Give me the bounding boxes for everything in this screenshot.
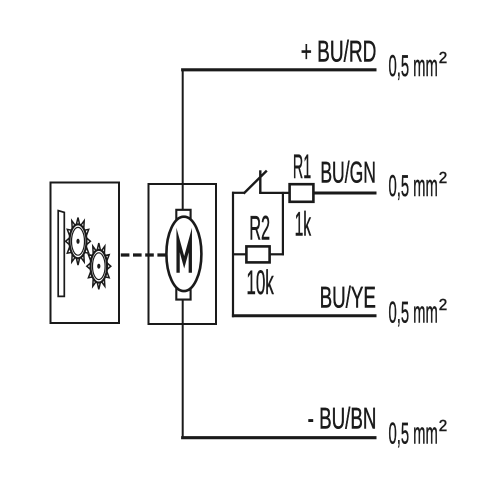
wire: R2 left lead [232,253,247,255]
svg-text:- BU/BN: - BU/BN [308,403,377,436]
cable BU/YE [232,314,377,317]
label 0,5 mm2 row1 [389,50,438,83]
cable + BU/RD [181,68,376,71]
cable - BU/BN [181,436,376,439]
label R1 [293,148,311,186]
label 0,5 mm2 row2 [389,170,438,203]
svg-text:BU/YE: BU/YE [320,281,376,314]
gear rack bar [58,211,64,297]
label 0,5 mm2 row3 [389,297,438,330]
label R2 [249,210,270,248]
resistor R2 box [246,246,269,262]
cable BU/GN [313,192,376,195]
svg-text:R1: R1 [293,148,311,186]
wire: R2 right lead [269,253,284,255]
svg-text:2: 2 [439,170,448,187]
motor M1 body [166,217,201,291]
svg-text:10k: 10k [246,264,274,302]
gear G2 [87,243,111,289]
svg-text:BU/GN: BU/GN [320,156,376,189]
gearbox enclosure [51,183,120,324]
svg-text:0,5 mm: 0,5 mm [389,418,438,451]
label 0,5 mm2 row4 [389,418,438,451]
svg-text:0,5 mm: 0,5 mm [389,170,438,203]
svg-text:0,5 mm: 0,5 mm [389,50,438,83]
label + BU/RD [301,36,377,69]
motor terminal bottom [176,287,190,299]
label 10k [246,264,274,302]
resistor R1 box [290,184,314,202]
svg-text:2: 2 [439,50,448,67]
switch fixed post [259,170,261,193]
wire: motor bottom lead [182,299,184,439]
wire: motor top lead [182,69,184,211]
wire: left vertical riser [232,192,234,317]
wire: switch to R1 [259,192,290,194]
svg-text:2: 2 [439,297,448,314]
gear G1 [66,218,91,266]
label BU/YE [320,281,376,314]
svg-text:1k: 1k [295,206,312,244]
wire: right vertical (R1 to R2) [282,192,284,256]
label 1k [295,206,312,244]
switch F1 left stub [232,192,245,194]
motor terminal top [176,210,190,221]
motor letter M [178,240,190,273]
label - BU/BN [308,403,377,436]
svg-text:0,5 mm: 0,5 mm [389,297,438,330]
mechanical link (dashed shaft) [121,253,167,256]
motor enclosure [149,184,217,324]
switch blade [244,171,267,194]
label BU/GN [320,156,376,189]
svg-text:+ BU/RD: + BU/RD [301,36,377,69]
svg-text:2: 2 [439,418,448,435]
svg-text:R2: R2 [249,210,270,248]
